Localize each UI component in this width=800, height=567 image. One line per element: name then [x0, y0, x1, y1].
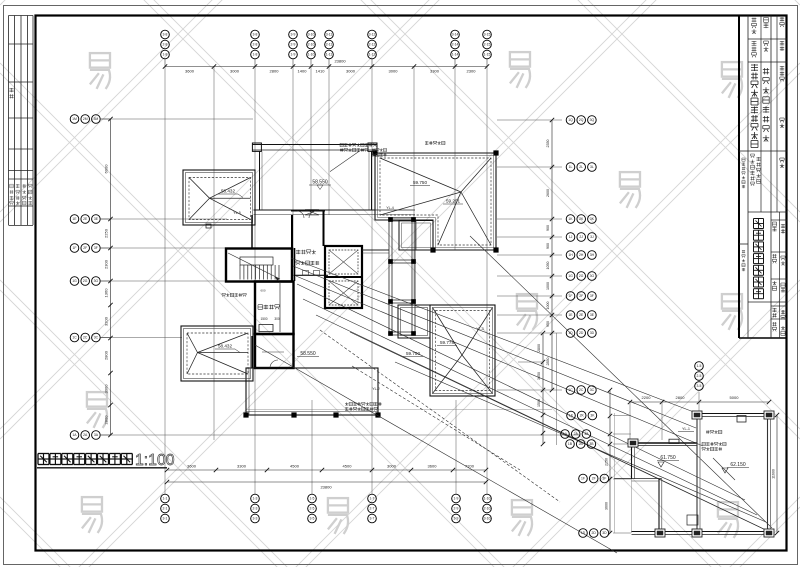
- svg-text:1400: 1400: [298, 69, 308, 74]
- svg-text:2800: 2800: [270, 69, 280, 74]
- svg-text:1-11: 1-11: [326, 53, 333, 57]
- svg-text:1E: 1E: [568, 313, 573, 317]
- svg-text:58.432: 58.432: [218, 344, 232, 349]
- elevator shafts: [325, 246, 362, 308]
- svg-text:3-10: 3-10: [308, 33, 315, 37]
- svg-text:1Q: 1Q: [568, 118, 573, 122]
- svg-text:2250: 2250: [104, 228, 109, 238]
- svg-text:1360: 1360: [104, 288, 109, 298]
- top rect R1 (58.550 upper): [252, 143, 377, 215]
- svg-text:2J: 2J: [579, 235, 583, 239]
- svg-text:1-5: 1-5: [697, 364, 702, 368]
- svg-text:3G: 3G: [590, 274, 595, 278]
- svg-text:1K: 1K: [569, 414, 574, 418]
- svg-text:3-9: 3-9: [291, 33, 296, 37]
- svg-text:3E: 3E: [590, 313, 595, 317]
- svg-text:2F: 2F: [579, 294, 583, 298]
- core: lower room: [255, 334, 294, 368]
- core left wall + plan left edge: [246, 210, 552, 410]
- core: corridor with doors: [291, 211, 325, 281]
- svg-text:2E: 2E: [83, 217, 88, 221]
- svg-text:900: 900: [546, 243, 550, 249]
- svg-text:3M: 3M: [94, 117, 99, 121]
- roof top-left 58.432: [183, 170, 255, 228]
- bottom dimension lines: [165, 464, 488, 490]
- svg-text:3-12: 3-12: [369, 33, 376, 37]
- TR roof corner columns: [373, 151, 498, 252]
- svg-text:1-9: 1-9: [454, 497, 459, 501]
- right axis circles: [566, 116, 596, 395]
- detached plan axis circles: [561, 362, 704, 538]
- svg-text:1A: 1A: [72, 433, 77, 437]
- left strip table: [9, 16, 34, 226]
- svg-text:2M: 2M: [83, 117, 88, 121]
- svg-text:3-5: 3-5: [697, 384, 702, 388]
- svg-text:1-10: 1-10: [308, 53, 315, 57]
- svg-text:900: 900: [546, 225, 550, 231]
- svg-text:1-7: 1-7: [370, 497, 375, 501]
- svg-text:1-12: 1-12: [369, 53, 376, 57]
- svg-text:2-8: 2-8: [163, 43, 168, 47]
- svg-text:2-1: 2-1: [163, 507, 168, 511]
- svg-text:59.750: 59.750: [413, 180, 427, 185]
- svg-text:3600: 3600: [185, 69, 195, 74]
- svg-text:2-11: 2-11: [326, 43, 333, 47]
- left axis circles: [70, 115, 110, 440]
- svg-text:2800: 2800: [104, 350, 109, 360]
- svg-text:59.778: 59.778: [440, 340, 454, 345]
- notch rooms BR: [398, 305, 430, 338]
- svg-text:6000: 6000: [104, 164, 109, 174]
- svg-text:2-14: 2-14: [452, 43, 459, 47]
- svg-text:YL-4: YL-4: [386, 206, 394, 210]
- svg-text:2K: 2K: [579, 217, 584, 221]
- detached plan dimension top: [628, 395, 771, 440]
- detached plan labels: [657, 427, 749, 480]
- svg-text:3K: 3K: [590, 414, 595, 418]
- svg-text:2-8: 2-8: [253, 43, 258, 47]
- svg-text:3600: 3600: [187, 464, 197, 469]
- svg-text:3K: 3K: [590, 217, 595, 221]
- svg-text:1A: 1A: [563, 432, 568, 436]
- svg-text:1F: 1F: [581, 477, 585, 481]
- svg-text:2-9: 2-9: [291, 43, 296, 47]
- svg-text:950: 950: [546, 321, 550, 327]
- svg-text:3F: 3F: [94, 246, 98, 250]
- svg-text:3-1: 3-1: [163, 517, 168, 521]
- svg-text:3F: 3F: [602, 477, 606, 481]
- detached plan left dim: [605, 388, 613, 535]
- svg-text:5000: 5000: [730, 395, 740, 400]
- svg-text:3C: 3C: [590, 388, 595, 392]
- top dimension line: [163, 59, 489, 74]
- top axis circles: [161, 30, 492, 59]
- svg-text:2-10: 2-10: [308, 43, 315, 47]
- svg-text:1G: 1G: [72, 279, 77, 283]
- svg-text:2A: 2A: [83, 433, 88, 437]
- svg-text:2-12: 2-12: [369, 43, 376, 47]
- svg-text:1J: 1J: [569, 235, 573, 239]
- svg-text:2L: 2L: [579, 165, 583, 169]
- svg-text:2250: 2250: [605, 458, 609, 466]
- svg-text:3000: 3000: [230, 69, 240, 74]
- svg-text:3C: 3C: [94, 336, 99, 340]
- svg-text:2-7: 2-7: [370, 507, 375, 511]
- svg-text:1410: 1410: [316, 69, 326, 74]
- watermark yi glyphs: [82, 52, 742, 538]
- svg-text:2D: 2D: [579, 331, 584, 335]
- svg-text:3D: 3D: [590, 331, 595, 335]
- extension grid lines: [100, 59, 580, 494]
- svg-text:3050: 3050: [537, 372, 541, 380]
- svg-text:3-10: 3-10: [484, 517, 491, 521]
- svg-text:2-10: 2-10: [484, 507, 491, 511]
- svg-text:2800: 2800: [537, 344, 541, 352]
- drawing title: [37, 452, 175, 469]
- svg-text:3-14: 3-14: [452, 33, 459, 37]
- svg-text:11600: 11600: [772, 469, 776, 479]
- svg-text:3A: 3A: [94, 433, 99, 437]
- svg-text:2300: 2300: [467, 69, 477, 74]
- svg-text:1-8: 1-8: [163, 53, 168, 57]
- svg-text:3-7: 3-7: [370, 517, 375, 521]
- svg-text:1C: 1C: [72, 336, 77, 340]
- svg-text:1500: 1500: [260, 317, 267, 321]
- svg-text:62.150: 62.150: [730, 462, 746, 468]
- svg-text:58.432: 58.432: [221, 189, 235, 194]
- svg-text:1G: 1G: [568, 274, 573, 278]
- svg-text:7200: 7200: [465, 464, 475, 469]
- svg-text:2800: 2800: [104, 415, 109, 425]
- svg-text:YL-5: YL-5: [233, 211, 241, 215]
- svg-text:3J: 3J: [590, 235, 594, 239]
- svg-text:4500: 4500: [290, 464, 300, 469]
- svg-text:3600: 3600: [428, 464, 438, 469]
- svg-text:2350: 2350: [546, 140, 550, 148]
- svg-text:3300: 3300: [237, 464, 247, 469]
- svg-text:2Q: 2Q: [579, 118, 584, 122]
- svg-text:3D: 3D: [602, 531, 607, 535]
- svg-text:3300: 3300: [430, 69, 440, 74]
- svg-text:2800: 2800: [676, 395, 686, 400]
- svg-text:1-9: 1-9: [291, 53, 296, 57]
- svg-text:23800: 23800: [320, 485, 332, 490]
- detached plan right dim: [772, 413, 780, 535]
- svg-text:1000: 1000: [546, 282, 550, 290]
- svg-text:3-15: 3-15: [484, 33, 491, 37]
- svg-text:3-3: 3-3: [253, 517, 258, 521]
- title block: [739, 16, 787, 339]
- svg-text:3E: 3E: [94, 217, 99, 221]
- svg-text:1050: 1050: [546, 262, 550, 270]
- svg-text:1-15: 1-15: [484, 53, 491, 57]
- svg-text:2B: 2B: [579, 442, 584, 446]
- svg-text:3000: 3000: [104, 384, 109, 394]
- svg-text:2-5: 2-5: [697, 374, 702, 378]
- roof bottom-right 59.750: [403, 305, 495, 396]
- svg-text:1E: 1E: [72, 217, 77, 221]
- svg-text:3-11: 3-11: [326, 33, 333, 37]
- core: water tank room: [255, 271, 328, 335]
- svg-text:1D: 1D: [581, 531, 586, 535]
- svg-text:1-3: 1-3: [253, 497, 258, 501]
- svg-text:600: 600: [260, 289, 265, 293]
- svg-text:300: 300: [274, 317, 280, 321]
- bottom axis circles: [161, 494, 492, 523]
- svg-text:3H: 3H: [590, 253, 595, 257]
- svg-text:1B: 1B: [568, 442, 573, 446]
- svg-text:2K: 2K: [580, 414, 585, 418]
- svg-text:1000: 1000: [546, 302, 550, 310]
- svg-text:3000: 3000: [389, 69, 399, 74]
- svg-text:2H: 2H: [579, 253, 584, 257]
- svg-text:1-5: 1-5: [310, 497, 315, 501]
- svg-text:2600: 2600: [546, 189, 550, 197]
- svg-text:2-9: 2-9: [454, 507, 459, 511]
- svg-text:2F: 2F: [592, 477, 596, 481]
- svg-text:1K: 1K: [568, 217, 573, 221]
- svg-text:YL-2: YL-2: [372, 387, 380, 391]
- svg-text:2C: 2C: [579, 388, 584, 392]
- left dimension line: [104, 117, 113, 437]
- TR connector rooms: [399, 221, 433, 251]
- svg-text:3-8: 3-8: [163, 33, 168, 37]
- svg-text:4500: 4500: [343, 464, 353, 469]
- svg-text:3L: 3L: [590, 165, 594, 169]
- leader lines to detail plan: [255, 236, 772, 553]
- tiny note texts in plan: [222, 141, 445, 410]
- right dimension line: [546, 118, 554, 392]
- svg-text:2F: 2F: [83, 246, 87, 250]
- svg-text:3-9: 3-9: [454, 517, 459, 521]
- svg-text:2G: 2G: [579, 274, 584, 278]
- svg-text:2850: 2850: [546, 358, 550, 366]
- svg-text:1-14: 1-14: [452, 53, 459, 57]
- svg-text:58.550: 58.550: [300, 351, 316, 357]
- svg-text:1F: 1F: [73, 246, 77, 250]
- svg-text:61.750: 61.750: [660, 455, 676, 461]
- roof bottom-left 58.432: [181, 326, 253, 381]
- svg-text:3-5: 3-5: [310, 517, 315, 521]
- bottom rect R2 (58.550 lower): [244, 351, 380, 417]
- title block small texts: [742, 17, 785, 335]
- svg-text:1:100: 1:100: [135, 452, 175, 469]
- svg-text:3B: 3B: [589, 442, 594, 446]
- svg-text:2A: 2A: [574, 432, 579, 436]
- detached plan walls: [614, 411, 774, 537]
- svg-text:3Q: 3Q: [590, 118, 595, 122]
- svg-text:1-8: 1-8: [253, 53, 258, 57]
- svg-text:3G: 3G: [94, 279, 99, 283]
- svg-text:3-8: 3-8: [253, 33, 258, 37]
- svg-text:2200: 2200: [642, 395, 652, 400]
- svg-text:YL-1: YL-1: [682, 427, 690, 431]
- svg-text:3200: 3200: [104, 316, 109, 326]
- svg-text:3A: 3A: [584, 432, 589, 436]
- svg-text:3000: 3000: [346, 69, 356, 74]
- svg-text:2C: 2C: [83, 336, 88, 340]
- core: stair room: [226, 249, 292, 282]
- svg-text:2-15: 2-15: [484, 43, 491, 47]
- svg-text:2E: 2E: [579, 313, 584, 317]
- right lower dim line: [518, 331, 557, 446]
- svg-text:2-3: 2-3: [253, 507, 258, 511]
- right rooms column: [362, 218, 416, 336]
- svg-text:23800: 23800: [334, 59, 346, 64]
- svg-text:2300: 2300: [104, 259, 109, 269]
- svg-text:2G: 2G: [83, 279, 88, 283]
- svg-text:1-1: 1-1: [163, 497, 168, 501]
- roof top-right 59.750: [375, 153, 496, 250]
- svg-text:58.550: 58.550: [312, 180, 328, 186]
- svg-text:2-5: 2-5: [310, 507, 315, 511]
- svg-text:1-10: 1-10: [484, 497, 491, 501]
- svg-text:3600: 3600: [605, 502, 609, 510]
- svg-text:2D: 2D: [592, 531, 597, 535]
- svg-text:3000: 3000: [387, 464, 397, 469]
- svg-text:3F: 3F: [590, 294, 594, 298]
- svg-text:59.201: 59.201: [446, 199, 460, 204]
- svg-text:1L: 1L: [569, 165, 573, 169]
- svg-text:1H: 1H: [568, 253, 573, 257]
- small labels YL: [372, 206, 484, 391]
- svg-text:1M: 1M: [72, 117, 77, 121]
- svg-text:1F: 1F: [569, 294, 573, 298]
